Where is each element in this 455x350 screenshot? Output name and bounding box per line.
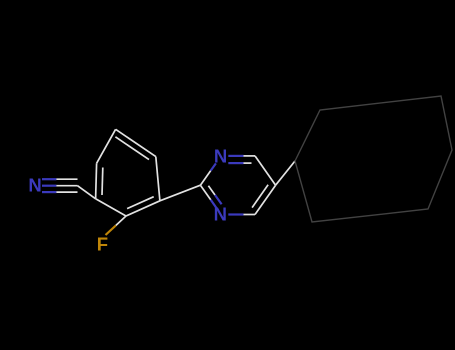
pyrimidine bond C2=N3 outer blue half: [211, 200, 217, 209]
pyrimidine bond N3-C4: blue then white: [228, 213, 243, 215]
svg-text:F: F: [97, 234, 108, 255]
pyrimidine bond C5-C6: [255, 156, 276, 185]
pyrimidine bond C4=C5 inner line: [252, 185, 268, 208]
elongated cyclohexane ring: [295, 96, 452, 222]
benzene ring outline: [96, 163, 97, 199]
nitrile triple bond line 3 (blue half near N): [42, 191, 56, 193]
pyrimidine bond C2-N1 blue half: [211, 163, 216, 170]
pyrimidine bond C2=N3 inner line: [208, 186, 215, 195]
pyrimidine bond C2=N3 inner line blue half: [215, 195, 222, 204]
svg-text:N: N: [214, 203, 227, 224]
pyrimidine bond N1=C6 outer: blue then white: [228, 155, 243, 157]
nitrile triple bond line 2 (blue half near N): [42, 185, 56, 187]
benzene double bond inner line C6-C1: [101, 168, 104, 196]
wire: C2-F bond orange half: [106, 226, 116, 236]
benzene double bond inner line Ctop-C5: [115, 137, 149, 160]
benzene double bond inner line C2-C3: [127, 197, 154, 209]
wire: pyrimidine C5 - cyclohexane left vertex: [276, 161, 295, 185]
wire: benzene C3 - pyrimidine C2: [160, 185, 201, 201]
nitrile triple bond line 1 (blue half near N): [42, 178, 56, 180]
pyrimidine bond N1=C6 inner line: [228, 162, 243, 164]
pyrimidine bond C4=C5 outer: [255, 185, 276, 214]
wire: nitrile C - benzene C1: [78, 186, 96, 199]
svg-text:N: N: [214, 146, 227, 167]
pyrimidine bond C2-N1 white half: [200, 171, 210, 186]
svg-text:N: N: [28, 174, 41, 195]
pyrimidine bond C2=N3 outer white half: [200, 185, 210, 200]
wire: C2-F bond gray half: [116, 216, 126, 226]
